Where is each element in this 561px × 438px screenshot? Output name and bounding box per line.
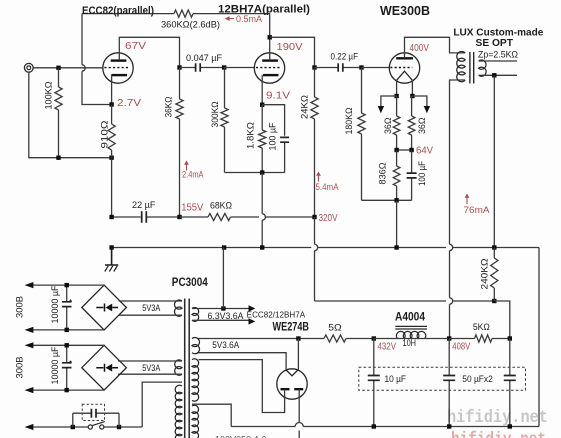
label 10000uF lower <box>50 346 61 384</box>
junction dot bus at input return <box>109 245 113 249</box>
capacitor 100uF cathode bypass 300B <box>407 150 417 200</box>
resistor 36 hum right <box>411 96 413 116</box>
junction dot secondary ground tap <box>492 73 496 77</box>
wire input return down to ground bus <box>111 158 113 217</box>
node label 67V <box>125 41 146 52</box>
svg-text:400V: 400V <box>410 43 430 54</box>
choke A4004 core <box>395 326 427 329</box>
resistor 100K grid leak <box>58 68 60 87</box>
svg-text:155V: 155V <box>181 202 203 213</box>
wire cathode network bottom <box>362 199 412 201</box>
label 100uF value b <box>417 161 428 186</box>
transformer T1 core <box>185 299 190 438</box>
wire 274B filament right arm <box>297 339 299 370</box>
resistor 5 ohm <box>324 335 346 342</box>
label 5V3.6A <box>212 340 239 350</box>
label 5K value <box>473 322 490 333</box>
wire cathode node to 100uF leg <box>262 105 284 136</box>
junction dot ECC82 plate node <box>177 65 181 69</box>
label 0.047uF value <box>186 53 222 64</box>
resistor 180K grid leak <box>361 68 363 114</box>
svg-text:2.7V: 2.7V <box>117 98 141 109</box>
label 836 value <box>378 163 389 185</box>
capacitor 0.047uF coupling <box>180 63 225 72</box>
svg-text:5Ω: 5Ω <box>328 323 342 334</box>
wire 68K to 320V node <box>231 216 260 218</box>
wire 36K leads <box>179 68 181 100</box>
junction dot cap2 bottom <box>65 388 69 392</box>
current label 5.4mA with up arrow <box>316 172 321 182</box>
svg-text:1.8KΩ: 1.8KΩ <box>246 122 257 149</box>
junction dot cap2 top <box>65 343 69 347</box>
wire feedback to 12BH7A plate node <box>193 14 270 36</box>
node label 155V <box>181 202 203 213</box>
wire OPT primary bottom lead <box>450 80 466 244</box>
transformer T1 winding HV upper <box>192 359 199 401</box>
wire heater ground to bus <box>222 248 224 309</box>
svg-text:300B: 300B <box>15 296 26 318</box>
resistor 1.8K cathode <box>261 105 263 130</box>
wire hop - RC leg over 320V rail <box>262 214 265 220</box>
junction dot 432V node <box>372 336 376 340</box>
svg-text:ECC82(parallel): ECC82(parallel) <box>82 5 154 17</box>
junction dot 12BH7A grid node <box>222 65 226 69</box>
capacitor spark suppressor <box>73 409 119 418</box>
svg-text:WE274B: WE274B <box>273 322 310 334</box>
svg-text:hifidiy.net: hifidiy.net <box>451 430 546 438</box>
svg-text:100 µF: 100 µF <box>417 161 428 186</box>
wire bottom ground rail <box>231 426 295 428</box>
wire hop - 320V feed over ground bus <box>315 244 318 250</box>
label 68K value <box>210 200 232 211</box>
node label 320V <box>319 213 338 224</box>
power switch <box>88 422 105 430</box>
wire 12BH7A cathode down <box>261 75 263 105</box>
label 36 value right <box>417 118 428 135</box>
wire grid node to 12BH7A <box>224 67 254 69</box>
svg-text:WE300B: WE300B <box>380 4 430 18</box>
svg-text:432V: 432V <box>378 342 397 353</box>
svg-text:5V3A: 5V3A <box>142 303 160 313</box>
wire 5V bottom lead and left arm <box>197 353 286 370</box>
label 300B upper <box>15 296 26 318</box>
svg-text:2.4mA: 2.4mA <box>182 169 204 179</box>
junction dot cathode 2.7V node <box>109 102 113 106</box>
resistor 36K plate load <box>176 99 183 119</box>
wire 320V feed line to 5K <box>315 300 447 302</box>
junction dot rail 50uF b <box>508 424 512 428</box>
capacitor 50uF filter a <box>443 339 455 427</box>
junction dot rail 10uF <box>372 424 376 428</box>
node label 432V <box>378 342 397 353</box>
wire hop - OPT return over ground bus <box>450 244 453 250</box>
wire secondary ground down to bus <box>493 75 495 247</box>
wire plate node over to 24K column <box>270 37 315 67</box>
current label 2.4mA with up arrow <box>184 161 189 171</box>
bridge rectifier D1 <box>82 285 127 330</box>
transformer T1 primary winding <box>175 385 182 438</box>
label WE274B <box>273 322 310 334</box>
wire feed corner to 5K right <box>494 301 510 339</box>
wire RC bottom down to ground bus <box>261 173 263 214</box>
tube U4 WE274B rectifier <box>277 369 307 399</box>
label 6.3V3.6A <box>208 311 244 321</box>
svg-text:360KΩ(2.6dB): 360KΩ(2.6dB) <box>161 19 220 30</box>
junction dot bus OPT secondary return <box>492 245 496 249</box>
junction dot cathode bottom <box>394 198 398 202</box>
junction dot heater ground tap <box>221 306 225 310</box>
transformer T1 winding 5V3A upper <box>174 300 182 316</box>
svg-text:64V: 64V <box>416 145 433 156</box>
wire ECC82 plate to node <box>119 37 179 67</box>
current label 76mA with up arrow <box>465 194 470 205</box>
dashed box spark suppressor <box>82 404 104 420</box>
junction dot cap1 bottom <box>65 328 69 332</box>
resistor 240K bleeder <box>493 248 495 259</box>
resistor 24K plate load <box>314 68 316 98</box>
wire 5 ohm to 432V node <box>346 338 374 340</box>
junction dot rail 50uF a <box>447 424 451 428</box>
svg-text:ECC82/12BH7A: ECC82/12BH7A <box>247 311 306 320</box>
capacitor 100uF cathode bypass 12BH7A <box>280 137 289 172</box>
resistor 68K decoupling <box>180 216 209 218</box>
junction dot 155V node <box>177 215 181 219</box>
label 100K value <box>44 82 55 110</box>
wire WE300B plate to OPT primary <box>405 37 466 58</box>
wire filament supply arrow right <box>412 96 427 107</box>
resistor 36 hum left <box>396 96 398 116</box>
capacitor 50uF filter b <box>504 339 516 427</box>
wire HV top lead to left plate <box>199 360 285 413</box>
wire ECC82 cathode down <box>111 75 113 105</box>
label 300K value <box>210 102 221 128</box>
wire bridge2 DC+ line to 300B arrow <box>33 344 104 346</box>
resistor 360K feedback <box>174 10 193 17</box>
junction dot 320V node <box>312 215 316 219</box>
svg-text:408V: 408V <box>452 342 470 353</box>
transformer T1 winding 6.3V <box>192 307 199 321</box>
wire bridge1 DC- line to 300B arrow <box>33 329 104 331</box>
label 5 ohm value <box>328 323 342 334</box>
wire OPT return between bus and feed line <box>449 251 451 298</box>
junction dot 64V left <box>394 148 398 152</box>
capacitor 10000uF upper <box>62 285 72 330</box>
tube U1 ECC82 <box>103 53 133 83</box>
junction dot cathode 9.1V node <box>260 103 264 107</box>
svg-text:Zp=2.5KΩ: Zp=2.5KΩ <box>478 50 518 60</box>
label 360K value <box>161 19 220 30</box>
label 12BH7A(parallel) <box>218 4 310 16</box>
svg-text:0.22 µF: 0.22 µF <box>331 52 359 63</box>
junction dot 274B output <box>296 336 300 340</box>
junction dot 240K bottom <box>492 299 496 303</box>
wire 36 ohm bottoms tie 64V <box>397 149 412 151</box>
junction dot switch right <box>117 425 121 429</box>
svg-text:24KΩ: 24KΩ <box>300 95 311 119</box>
svg-text:50 µFx2: 50 µFx2 <box>462 374 493 385</box>
junction dot 408V node <box>447 336 451 340</box>
wire 6.3V heater lead top with arrow <box>192 308 249 310</box>
watermark hifidiy.net <box>447 408 548 428</box>
wire right plate lead down <box>298 389 300 422</box>
svg-text:0.5mA: 0.5mA <box>236 14 263 24</box>
junction dot 100K bottom <box>56 156 60 160</box>
svg-text:300B: 300B <box>15 357 26 379</box>
wire OPT secondary bottom lead <box>479 74 517 76</box>
svg-text:6.3V3.6A: 6.3V3.6A <box>208 311 244 321</box>
svg-text:36KΩ: 36KΩ <box>164 97 175 118</box>
svg-text:36Ω: 36Ω <box>383 118 394 135</box>
label LUX Custom-made <box>453 27 543 39</box>
node label 408V <box>452 342 470 353</box>
junction dot 12BH7A plate node 190V <box>268 35 272 39</box>
svg-text:76mA: 76mA <box>464 205 491 215</box>
svg-text:100KΩ: 100KΩ <box>44 82 55 110</box>
node label 64V <box>416 145 433 156</box>
wire 12BH7A plate to node <box>269 37 271 60</box>
wire 320V rail <box>112 216 141 218</box>
transformer T1 winding HV lower <box>192 405 199 438</box>
wire 5K to corner <box>492 338 510 340</box>
current label 0.5mA with left arrow <box>225 16 234 21</box>
label 10H value <box>403 338 417 349</box>
svg-text:836Ω: 836Ω <box>378 163 389 185</box>
label WE300B <box>380 4 430 18</box>
wire bridge2 DC- line to 300B arrow <box>33 389 104 391</box>
wire hop - feedback leg over grid line <box>82 65 85 71</box>
wire choke line <box>374 338 449 340</box>
wire cathode RC bottom connector <box>225 172 285 174</box>
wire bridge1 DC+ line to 300B arrow <box>33 284 104 286</box>
label 36 value left <box>383 118 394 135</box>
wire cathode bottom to ground bus <box>396 200 398 247</box>
capacitor 22uF filter <box>142 211 180 222</box>
svg-text:240KΩ: 240KΩ <box>480 259 491 290</box>
wire B+ line from 274B to 5 ohm <box>197 338 324 340</box>
svg-text:36Ω: 36Ω <box>417 118 428 135</box>
label 10uF value <box>385 374 407 385</box>
label 10000uF upper <box>50 285 61 323</box>
junction dot bus 300B cathode return <box>394 245 398 249</box>
label 240K value <box>480 259 491 290</box>
svg-text:0.047 µF: 0.047 µF <box>186 53 222 64</box>
label PC3004 <box>172 277 209 289</box>
svg-text:910Ω: 910Ω <box>100 121 111 149</box>
node label 190V <box>277 42 303 53</box>
svg-text:22 µF: 22 µF <box>132 200 156 211</box>
wire bridge1 AC leads <box>119 300 182 302</box>
wire suppressor legs <box>72 413 74 427</box>
label ECC82(parallel) <box>82 5 154 17</box>
wire 408V to 5K <box>449 338 474 340</box>
junction dot filament pin right <box>410 94 414 98</box>
wire OPT return to 408V node <box>449 304 451 338</box>
wire ground bus <box>112 247 312 249</box>
label SE OPT <box>476 37 514 49</box>
label 0.22uF value <box>331 52 359 63</box>
svg-text:5V3.6A: 5V3.6A <box>212 340 239 350</box>
wire filament supply arrow left <box>381 96 397 107</box>
wire switch right to primary <box>104 426 142 428</box>
svg-text:100V050 4-0: 100V050 4-0 <box>215 435 267 438</box>
wire grid node to WE300B <box>362 67 390 69</box>
node label 2.7V <box>117 98 141 109</box>
svg-text:10 µF: 10 µF <box>385 374 407 385</box>
wire hop - OPT return over 320V feed <box>450 298 453 304</box>
capacitor 0.22uF coupling <box>315 63 362 72</box>
transformer T1 winding 5V3A lower <box>175 360 182 375</box>
wire feedback left leg down to ECC82 cathode <box>81 14 83 65</box>
wire OPT secondary top lead <box>479 60 517 62</box>
transformer T1 winding 5V rectifier <box>192 337 200 353</box>
wire mains line with arrow <box>33 426 88 428</box>
label 24K value <box>300 95 311 119</box>
junction dot cap1 top <box>65 283 69 287</box>
svg-text:10000 µF: 10000 µF <box>50 285 61 323</box>
label 5V3A upper <box>142 303 160 313</box>
wire hop - rail over 274B plate lead <box>295 423 303 427</box>
wire WE300B filament leads down <box>396 80 398 96</box>
wire HV center tap <box>192 404 231 426</box>
wire bridge2 AC leads <box>118 360 182 362</box>
node label 9.1V <box>266 91 290 102</box>
capacitor 10000uF lower <box>62 345 72 390</box>
wire 6.3V heater lead bottom with arrow <box>192 319 249 321</box>
svg-text:300KΩ: 300KΩ <box>210 102 221 128</box>
svg-text:10H: 10H <box>403 338 417 349</box>
svg-text:PC3004: PC3004 <box>172 277 209 289</box>
transformer T2 OPT secondary winding <box>479 60 487 76</box>
svg-text:12BH7A(parallel): 12BH7A(parallel) <box>218 4 310 16</box>
junction dot grid/100K <box>56 66 60 70</box>
junction dot 64V right <box>409 148 413 152</box>
choke A4004 winding <box>396 331 426 338</box>
capacitor 10uF filter <box>368 339 380 427</box>
label Zp=2.5K <box>478 50 518 60</box>
node label 400V <box>410 43 430 54</box>
junction dot 5K output <box>508 336 512 340</box>
label ECC82/12BH7A heater note <box>247 311 306 320</box>
svg-text:SE OPT: SE OPT <box>476 37 514 49</box>
transformer T2 OPT primary winding <box>457 51 465 81</box>
junction dot switch left <box>71 425 75 429</box>
wire feedback line top (360K loop) <box>82 13 174 15</box>
svg-text:68KΩ: 68KΩ <box>210 200 232 211</box>
svg-text:67V: 67V <box>125 41 146 52</box>
tube U2 12BH7A <box>254 53 284 83</box>
junction dot rail left end <box>109 215 113 219</box>
wire bus right edge down <box>538 248 540 427</box>
label A4004 <box>395 312 426 324</box>
ground symbol <box>105 248 119 272</box>
label 100uF value a <box>268 122 279 150</box>
svg-text:10000 µF: 10000 µF <box>50 346 61 384</box>
wire 320V feed down from rail <box>314 217 316 244</box>
junction dot WE300B grid node <box>359 65 363 69</box>
label 300B lower <box>15 357 26 379</box>
junction dot bus heater ground <box>222 245 226 249</box>
svg-text:100 µF: 100 µF <box>268 122 279 150</box>
input jack J1 <box>24 63 33 72</box>
junction dot 0.22uF takeoff <box>312 65 316 69</box>
svg-text:180KΩ: 180KΩ <box>344 108 355 135</box>
svg-text:9.1V: 9.1V <box>266 91 290 102</box>
svg-text:320V: 320V <box>319 213 338 224</box>
transformer T2 OPT core <box>470 52 474 84</box>
watermark bottom partial <box>451 430 546 438</box>
svg-text:5V3A: 5V3A <box>142 363 160 373</box>
label 22uF value <box>132 200 156 211</box>
label 5V3A lower <box>142 363 160 373</box>
label 50uFx2 value <box>462 374 493 385</box>
resistor 910 cathode <box>111 105 113 125</box>
resistor 300K grid leak <box>224 68 226 109</box>
junction dot input return at 910 bottom <box>109 156 113 160</box>
resistor 836 cathode <box>396 150 398 166</box>
resistor 5K dropper <box>475 335 493 342</box>
label 36K value <box>164 97 175 118</box>
svg-text:190V: 190V <box>277 42 303 53</box>
tube U3 WE300B <box>389 53 419 83</box>
svg-text:5KΩ: 5KΩ <box>473 322 490 333</box>
bridge rectifier D2 <box>82 345 127 390</box>
label 100V mains partial <box>215 435 267 438</box>
label 910 value <box>100 121 111 149</box>
junction dot RC bottom <box>260 170 264 174</box>
wire jack ground leg <box>29 72 112 158</box>
svg-text:5.4mA: 5.4mA <box>316 182 340 192</box>
wire input jack to ECC82 grid <box>33 67 103 69</box>
junction dot bus RC return <box>260 245 264 249</box>
wire primary lead from switch <box>142 382 182 427</box>
label 1.8K value <box>246 122 257 149</box>
svg-text:A4004: A4004 <box>395 312 426 324</box>
label 180K value <box>344 108 355 135</box>
junction dot filament pin left <box>394 94 398 98</box>
dashed box PSU capacitors <box>359 367 526 390</box>
svg-text:hifidiy.net: hifidiy.net <box>447 408 548 428</box>
